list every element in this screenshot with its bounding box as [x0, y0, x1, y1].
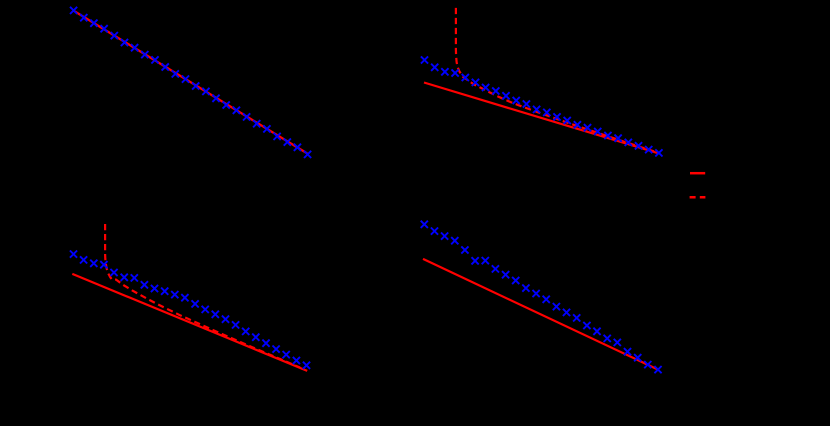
- legend dashed-line sample: [690, 196, 706, 199]
- fit line bottom-right: [423, 259, 659, 370]
- data markers top-right: [421, 56, 663, 156]
- legend solid-line sample: [690, 172, 705, 175]
- dashed fit curve top-right: [456, 8, 658, 153]
- fit line top-left: [74, 11, 307, 154]
- data markers bottom-right: [421, 221, 662, 374]
- data markers bottom-left: [70, 251, 310, 369]
- dashed fit curve bottom-left: [105, 224, 300, 368]
- fit line top-right: [424, 83, 658, 154]
- fit line bottom-left: [72, 274, 307, 371]
- data markers top-left: [70, 7, 311, 158]
